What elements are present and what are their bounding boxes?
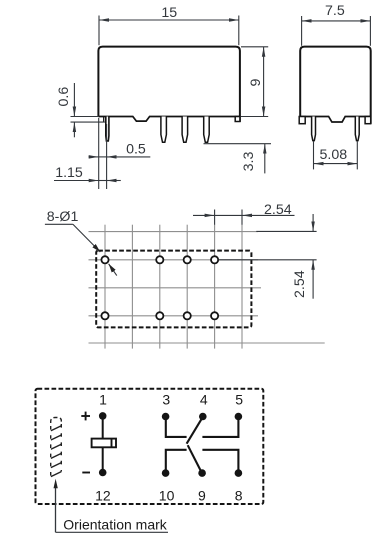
svg-text:12: 12 [95, 487, 111, 503]
svg-text:3: 3 [162, 392, 170, 408]
svg-text:9: 9 [248, 78, 264, 86]
svg-text:1.15: 1.15 [55, 165, 83, 181]
svg-text:4: 4 [200, 392, 208, 408]
svg-text:5: 5 [235, 392, 243, 408]
svg-text:7.5: 7.5 [325, 3, 345, 19]
svg-text:8: 8 [235, 487, 243, 503]
svg-text:10: 10 [159, 487, 175, 503]
svg-text:8-Ø1: 8-Ø1 [47, 209, 79, 225]
svg-text:1: 1 [99, 392, 107, 408]
svg-text:Orientation mark: Orientation mark [63, 516, 167, 532]
svg-text:9: 9 [198, 487, 206, 503]
svg-text:15: 15 [161, 5, 177, 21]
svg-text:5.08: 5.08 [319, 147, 347, 163]
svg-text:3.3: 3.3 [241, 152, 257, 172]
svg-text:2.54: 2.54 [292, 270, 308, 298]
svg-text:2.54: 2.54 [264, 202, 292, 218]
svg-text:0.5: 0.5 [126, 142, 146, 158]
svg-text:0.6: 0.6 [56, 87, 72, 107]
